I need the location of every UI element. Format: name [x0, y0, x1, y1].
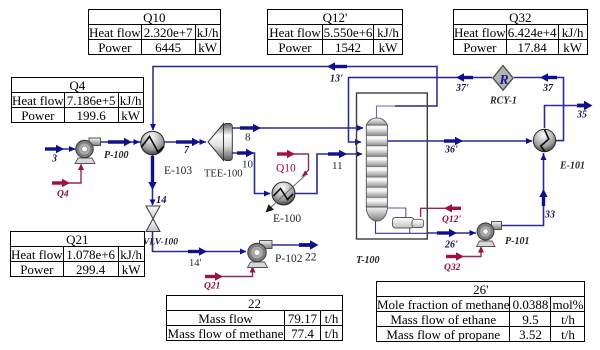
svg-text:8: 8	[245, 132, 251, 144]
wire stream 8	[231, 124, 364, 132]
wire stream 36' column to E-101	[388, 137, 533, 145]
pump P-101	[477, 222, 502, 247]
table Q32	[453, 9, 588, 55]
svg-text:P-102: P-102	[275, 253, 303, 265]
svg-text:13': 13'	[330, 74, 343, 85]
svg-text:14': 14'	[189, 258, 202, 269]
wire stream 26' to P-101	[428, 229, 477, 237]
wire energy stream Q21 to P-102	[205, 266, 256, 281]
wire stream 37' RCY-1 back to column	[349, 73, 493, 145]
wire energy stream Q32 to P-101	[446, 246, 484, 261]
wire stream 37 E-101 to RCY-1	[514, 73, 564, 140]
table stream 26'	[376, 281, 585, 342]
svg-text:Q12': Q12'	[442, 215, 461, 225]
svg-text:10: 10	[242, 159, 254, 171]
svg-text:7: 7	[184, 145, 190, 156]
table Q4	[11, 77, 144, 123]
wire stream 35 out of E-101	[545, 101, 593, 128]
svg-text:E-100: E-100	[273, 213, 301, 225]
svg-text:TEE-100: TEE-100	[204, 169, 243, 180]
svg-text:R: R	[498, 73, 508, 88]
wire energy stream Q12' to reboiler	[421, 204, 461, 217]
svg-text:22: 22	[305, 252, 317, 264]
wire column bottoms line	[376, 220, 428, 233]
svg-text:Q32: Q32	[444, 263, 461, 273]
wire P-100 outlet to E-103	[99, 138, 141, 146]
svg-text:Q10: Q10	[276, 163, 296, 175]
recycle RCY-1	[493, 66, 513, 91]
svg-text:26': 26'	[444, 240, 458, 251]
svg-text:37: 37	[542, 83, 554, 94]
wire energy stream Q10 to E-100	[277, 150, 309, 177]
svg-text:P-101: P-101	[505, 236, 529, 247]
reboiler vessel	[393, 218, 424, 229]
svg-text:35: 35	[576, 110, 587, 121]
wire stream 7	[164, 138, 206, 146]
wire stream 11	[295, 150, 363, 194]
pump P-100	[75, 138, 101, 164]
wire energy stream Q4 to P-100	[52, 164, 84, 188]
T-100 boundary box	[357, 93, 428, 239]
valve VLV-100	[146, 206, 160, 232]
svg-text:Q4: Q4	[57, 190, 69, 200]
wire stream 14 E-103 to valve	[148, 155, 156, 206]
wire stream 33 P-101 to E-101	[501, 153, 548, 226]
cooler E-100	[266, 175, 307, 213]
svg-text:E-103: E-103	[164, 165, 192, 177]
svg-text:RCY-1: RCY-1	[489, 96, 517, 107]
heat exchanger E-101	[533, 129, 555, 151]
table Q10	[88, 9, 221, 55]
table Q12'	[267, 9, 403, 55]
svg-text:11: 11	[332, 160, 343, 172]
svg-text:3: 3	[51, 154, 57, 165]
table stream 22	[166, 295, 343, 341]
svg-text:37': 37'	[455, 83, 469, 94]
wire stream 22 out of P-102	[271, 240, 319, 249]
svg-text:P-100: P-100	[104, 150, 128, 161]
svg-text:14: 14	[156, 195, 167, 206]
svg-text:Q21: Q21	[204, 282, 220, 292]
svg-text:33: 33	[544, 210, 555, 221]
svg-text:E-101: E-101	[559, 161, 585, 172]
tee TEE-100	[208, 124, 232, 161]
svg-text:T-100: T-100	[356, 255, 380, 266]
wire column overhead to reboiler internals	[388, 208, 406, 218]
svg-text:36': 36'	[444, 145, 458, 156]
wire stream 3	[45, 145, 76, 153]
wire stream 13' recycle overhead to E-103	[150, 62, 437, 130]
wire stream 14' valve to P-102	[153, 230, 247, 256]
wire stream 10	[231, 149, 271, 197]
column T-100 tower	[366, 118, 387, 221]
heat exchanger E-103	[141, 131, 165, 155]
pump P-102	[248, 241, 273, 268]
table Q21	[10, 231, 145, 277]
svg-text:VLV-100: VLV-100	[143, 238, 178, 248]
